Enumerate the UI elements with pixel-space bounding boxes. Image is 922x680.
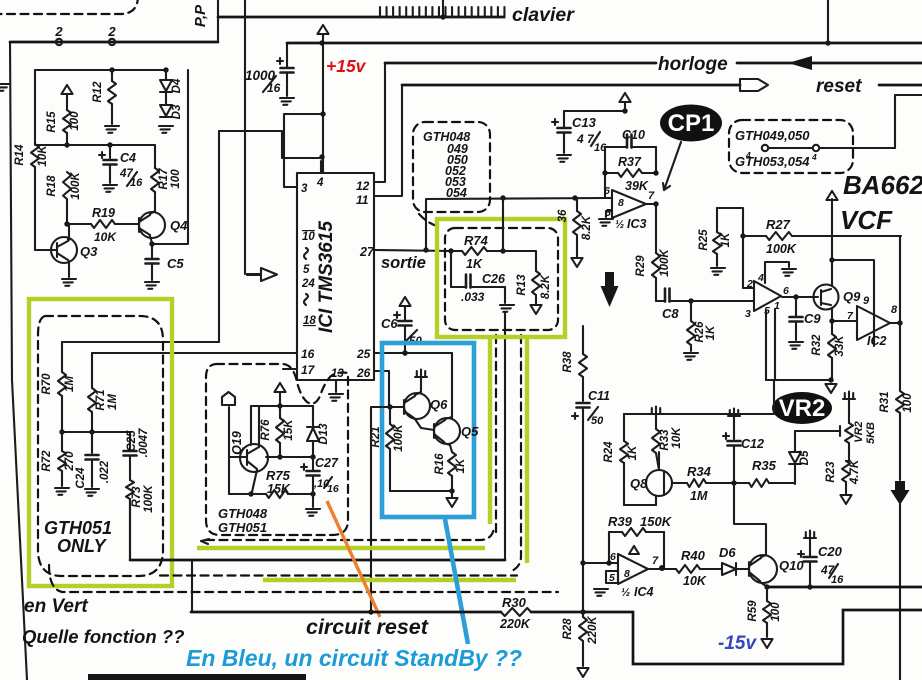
svg-text:10K: 10K: [671, 427, 683, 449]
wire R73 to y560 bus: [129, 499, 131, 559]
resistor R29: [655, 204, 657, 253]
svg-text:R71: R71: [95, 389, 107, 410]
svg-text:7: 7: [648, 190, 655, 202]
svg-text:6: 6: [783, 285, 789, 297]
resistor R31: [899, 323, 901, 391]
svg-text:8.2K: 8.2K: [581, 215, 593, 240]
wire R74 right riser: [502, 199, 504, 251]
svg-text:ICI TMS3615: ICI TMS3615: [316, 221, 337, 333]
wire reset bottom line: [191, 611, 501, 614]
resistor R28: [582, 612, 584, 617]
svg-text:6: 6: [604, 185, 610, 197]
svg-text:Q4: Q4: [170, 218, 188, 233]
op-amp IC4: [618, 554, 648, 584]
svg-text:Q3: Q3: [80, 244, 98, 259]
svg-text:33K: 33K: [834, 335, 846, 357]
diode D6: [722, 563, 736, 575]
svg-text:-15v: -15v: [718, 633, 757, 654]
dashed vertical B: [509, 335, 521, 572]
svg-text:D5: D5: [799, 450, 811, 465]
svg-text:4: 4: [757, 272, 764, 284]
svg-text:39K: 39K: [625, 179, 649, 193]
svg-text:C20: C20: [818, 544, 843, 559]
svg-text:C24: C24: [75, 467, 87, 489]
op-amp IC2b: [857, 306, 890, 340]
svg-text:GTH051: GTH051: [44, 518, 112, 538]
IC2a pin4 loop ground: [765, 262, 789, 283]
svg-text:Q9: Q9: [843, 289, 861, 304]
resistor R73: [126, 480, 134, 499]
svg-text:R28: R28: [562, 618, 574, 640]
capacitor C6: [399, 297, 410, 306]
capacitor C26: [450, 251, 452, 287]
resistor R27: [743, 235, 766, 237]
green vertical B: [525, 337, 529, 563]
arrow R13 bottom: [530, 305, 541, 314]
ground left edge: [0, 84, 10, 91]
svg-text:100K: 100K: [70, 172, 82, 200]
diode D3: [165, 92, 167, 104]
svg-text:R37: R37: [618, 155, 642, 169]
svg-text:1M: 1M: [107, 394, 119, 410]
wire reset drop x371: [371, 407, 390, 612]
dashed box sortie filter: [445, 228, 558, 330]
supply arrow Q9 rail: [826, 191, 837, 200]
resistor R17: [154, 145, 156, 168]
transistor Q19: [240, 444, 268, 472]
dashed elbow to sortie box: [419, 214, 440, 227]
svg-text:12: 12: [356, 179, 370, 193]
wire pin16: [92, 352, 297, 354]
node contact 2 (left): [56, 39, 62, 45]
arrow tick GTH051 box: [40, 316, 47, 323]
svg-text:16: 16: [831, 574, 844, 586]
svg-text:R38: R38: [562, 351, 574, 373]
VR2 oval: [772, 392, 832, 424]
svg-text:D13: D13: [318, 423, 330, 445]
svg-text:054: 054: [446, 186, 467, 200]
svg-text:8: 8: [891, 304, 898, 316]
svg-text:8.2K: 8.2K: [540, 274, 552, 299]
resistor R35: [734, 482, 749, 484]
svg-text:10K: 10K: [37, 145, 49, 167]
capacitor C12: [733, 416, 735, 439]
resistor R72: [61, 432, 63, 451]
svg-text:R40: R40: [681, 548, 706, 563]
capacitor C24: [91, 432, 93, 453]
svg-text:R34: R34: [687, 464, 712, 479]
resistor R32: [831, 321, 833, 334]
resistor R26: [690, 301, 692, 321]
wire emitter line y587: [767, 586, 922, 589]
svg-text:R24: R24: [603, 441, 615, 463]
wire x505 riser from y560 bus: [504, 313, 506, 560]
svg-text:IC3: IC3: [627, 217, 647, 231]
svg-text:16: 16: [327, 483, 339, 495]
svg-text:R75: R75: [266, 468, 291, 483]
svg-text:D3: D3: [171, 104, 183, 119]
arrow R28 bottom: [577, 668, 588, 677]
ground up R33: [650, 407, 662, 415]
wire x35 branch: [34, 70, 36, 144]
svg-text:10K: 10K: [683, 574, 707, 588]
svg-text:50: 50: [591, 415, 604, 427]
wire x219 vertical: [218, 131, 220, 342]
wire Q8 emitter: [624, 504, 656, 506]
svg-text:R35: R35: [752, 458, 777, 473]
svg-text:R30: R30: [502, 595, 527, 610]
wire drop x828: [827, 0, 829, 43]
capacitor C10: [605, 146, 627, 148]
ground up Q6: [415, 370, 427, 378]
staircase bottom: [633, 610, 922, 664]
svg-text:.022: .022: [99, 460, 111, 483]
capacitor C11: [577, 403, 590, 408]
svg-text:27: 27: [359, 245, 375, 259]
wire P.P vertical: [217, 0, 219, 41]
svg-text:R25: R25: [698, 229, 710, 251]
wire IC4 pin6: [583, 562, 618, 564]
svg-text:3: 3: [301, 183, 308, 195]
svg-text:1K: 1K: [705, 325, 717, 340]
svg-text:IC2: IC2: [867, 334, 887, 348]
wire left border: [10, 42, 27, 680]
wire C8 to IC2a: [691, 300, 754, 302]
wire R25 top: [717, 208, 743, 236]
resistor R24: [623, 414, 625, 441]
transistor Q3: [51, 237, 77, 263]
green vertical A: [488, 337, 492, 524]
wire horloge line: [385, 62, 656, 65]
transistor Q5: [434, 418, 460, 444]
svg-text:15K: 15K: [267, 482, 291, 496]
supply arrow R15: [61, 85, 72, 94]
wire x192 drop to reset line: [191, 560, 193, 612]
resistor R33: [655, 414, 657, 429]
wire pin17 stub: [283, 368, 297, 370]
arrow into IC1 pins 5-24: [247, 268, 277, 281]
resistor R12: [111, 70, 113, 81]
wire bias to IC2b: [832, 260, 874, 346]
svg-text:1K: 1K: [720, 232, 732, 247]
svg-text:1K: 1K: [466, 257, 483, 271]
wire pin11 to reset: [374, 85, 402, 196]
dashed bottom y593: [49, 565, 558, 592]
wire Q19 collector rail: [266, 456, 313, 458]
resistor R13: [503, 251, 536, 271]
svg-text:D6: D6: [719, 545, 736, 560]
arrow horloge (solid left): [788, 56, 812, 70]
svg-text:15K: 15K: [283, 419, 295, 441]
svg-text:R29: R29: [635, 255, 647, 277]
svg-text:En Bleu, un circuit StandBy ??: En Bleu, un circuit StandBy ??: [186, 645, 522, 671]
svg-text:C12: C12: [741, 437, 764, 451]
svg-text:150K: 150K: [640, 514, 673, 529]
resistor R40: [676, 565, 700, 573]
wire pin4: [320, 161, 322, 173]
ground arrow standby: [451, 491, 453, 497]
blue annotation box: [382, 343, 474, 517]
wire pin26: [374, 371, 389, 406]
svg-text:reset: reset: [816, 76, 862, 97]
resistor R16: [450, 445, 452, 452]
GTH049 dashed box: [729, 120, 853, 173]
svg-text:GTH049,050: GTH049,050: [735, 128, 810, 143]
wire to top right corner: [895, 95, 922, 148]
keyboard bus comb: [218, 16, 503, 19]
svg-text:.033: .033: [461, 290, 485, 304]
transistor Q6: [404, 393, 430, 419]
resistor R75: [229, 493, 251, 495]
contact circles GTH049 box: [762, 145, 768, 151]
svg-text:1K: 1K: [627, 445, 639, 460]
GTH048 dashed list box: [413, 122, 490, 212]
svg-text:1M: 1M: [64, 376, 76, 392]
capacitor C5: [151, 244, 153, 258]
resistor R19: [67, 223, 91, 225]
svg-text:C8: C8: [662, 306, 679, 321]
ground up C12: [728, 409, 740, 417]
svg-text:220K: 220K: [499, 617, 531, 631]
svg-text:R13: R13: [516, 274, 528, 296]
arrow tick dashes start: [201, 539, 209, 544]
resistor R76: [279, 392, 281, 418]
svg-text:R23: R23: [825, 461, 837, 483]
node contact 2 (right): [109, 39, 115, 45]
arrow below R32 node: [825, 384, 836, 393]
scan bar bottom: [88, 674, 306, 680]
svg-text:Q19: Q19: [230, 431, 244, 455]
svg-text:10: 10: [302, 231, 315, 243]
svg-text:100K: 100K: [393, 424, 405, 452]
ground C26: [504, 287, 506, 303]
svg-text:R70: R70: [41, 373, 53, 395]
orange annotation line: [327, 501, 380, 617]
svg-text:Q10: Q10: [779, 558, 804, 573]
transistor Q10: [749, 555, 777, 583]
wire Q4 emitter riser: [152, 70, 188, 244]
svg-text:P,P: P,P: [192, 4, 209, 27]
svg-text:C27: C27: [315, 456, 339, 470]
wire +15v rail: [322, 34, 324, 173]
wire IC2b out rail: [890, 322, 900, 324]
svg-text:en Vert: en Vert: [24, 596, 88, 617]
dashed box GTH051: [38, 316, 163, 576]
svg-text:+15v: +15v: [326, 56, 367, 76]
svg-text:8: 8: [624, 568, 630, 580]
resistor R21: [389, 407, 391, 424]
svg-text:16: 16: [301, 347, 315, 361]
resistor R18: [63, 172, 71, 199]
fat arrow down (right): [891, 481, 910, 505]
capacitor C13: [564, 110, 625, 112]
svg-text:25: 25: [356, 347, 371, 361]
svg-text:C4: C4: [120, 151, 136, 165]
svg-text:VR2: VR2: [779, 395, 826, 422]
+15v supply arrow: [317, 25, 328, 34]
wire Q9 drain rail: [831, 199, 833, 286]
svg-text:R18: R18: [46, 175, 58, 197]
wire pin3 loop: [284, 114, 323, 187]
arrow reset (open right): [740, 79, 768, 91]
svg-text:1M: 1M: [690, 489, 708, 503]
svg-text:CP1: CP1: [668, 110, 715, 137]
diode D5: [794, 431, 796, 451]
arrow R59 bottom: [761, 639, 772, 648]
resistor R25: [716, 208, 718, 232]
svg-text:100: 100: [902, 393, 914, 413]
diode D13: [312, 406, 314, 426]
svg-text:R32: R32: [811, 334, 823, 356]
svg-text:R73: R73: [131, 486, 143, 508]
resistor R37: [604, 147, 606, 173]
wire Q19 top rail: [251, 405, 313, 407]
capacitor C9: [795, 297, 797, 316]
wire pin25 into box: [451, 353, 453, 419]
resistor R15: [66, 94, 68, 110]
green annotation box 1: [29, 299, 172, 586]
svg-text:R19: R19: [92, 206, 115, 220]
svg-text:C9: C9: [804, 311, 821, 326]
svg-text:clavier: clavier: [512, 4, 575, 26]
svg-text:C26: C26: [482, 272, 506, 286]
wire bottom of standby: [390, 490, 452, 492]
resistor R71: [91, 353, 93, 388]
svg-text:.0047: .0047: [138, 428, 150, 457]
fat arrow down (left): [601, 272, 619, 307]
supply arrow C13 rail: [619, 93, 630, 102]
potentiometer VR2: [843, 392, 855, 400]
svg-text:R12: R12: [92, 81, 104, 103]
svg-text:18: 18: [303, 315, 316, 327]
capacitor C27: [312, 457, 314, 470]
svg-text:R31: R31: [879, 391, 891, 412]
svg-text:Q6: Q6: [430, 397, 448, 412]
svg-text:BA662: BA662: [843, 170, 922, 200]
dashed box top-left corner: [0, 0, 138, 14]
op-amp IC3: [612, 190, 646, 218]
wire clavier drop: [442, 0, 444, 17]
wire pin13 ground: [335, 380, 337, 392]
svg-text:C13: C13: [572, 115, 597, 130]
wire pin12 to horloge: [374, 63, 385, 182]
svg-text:R17: R17: [158, 168, 170, 190]
svg-text:5: 5: [609, 572, 615, 584]
svg-text:100: 100: [69, 111, 81, 131]
svg-text:R76: R76: [260, 419, 272, 441]
op-amp IC2a: [754, 281, 781, 311]
svg-text:ONLY: ONLY: [57, 536, 108, 556]
diode D4: [165, 70, 167, 79]
wire Q9 source: [832, 308, 857, 321]
svg-text:C25: C25: [126, 430, 138, 452]
transistor Q9 (fet): [814, 285, 839, 310]
green underline y548: [197, 546, 485, 550]
svg-text:6: 6: [610, 551, 616, 563]
svg-text:Q5: Q5: [461, 424, 479, 439]
svg-text:4.7K: 4.7K: [849, 459, 861, 485]
svg-text:26: 26: [356, 366, 371, 380]
arrow R36 bottom: [571, 258, 582, 267]
resistor R59: [766, 587, 768, 601]
svg-text:100: 100: [770, 602, 782, 622]
svg-text:2: 2: [107, 24, 116, 39]
wire pin27 riser: [426, 198, 605, 250]
dashed box GTH048/GTH051 (Q19): [206, 364, 348, 535]
svg-text:GTH051: GTH051: [218, 520, 267, 535]
svg-text:½: ½: [615, 219, 624, 231]
svg-text:100K: 100K: [659, 249, 671, 277]
svg-text:100K: 100K: [766, 242, 797, 256]
svg-text:36: 36: [557, 209, 569, 222]
svg-text:7: 7: [652, 555, 659, 567]
resistor R38: [582, 326, 584, 354]
supply arrow R76: [274, 383, 285, 392]
dashed vertical A: [495, 335, 497, 534]
svg-text:R72: R72: [41, 450, 53, 472]
svg-text:220K: 220K: [587, 616, 599, 645]
svg-text:VCF: VCF: [840, 205, 893, 235]
capacitor C8: [656, 300, 665, 302]
resistor R70: [61, 342, 63, 372]
svg-text:½: ½: [621, 587, 630, 599]
wire x245 keyboard line: [244, 0, 246, 274]
IC1 TMS3615: [297, 173, 374, 380]
svg-text:GTH048: GTH048: [218, 506, 268, 521]
arrow R23 bottom: [840, 495, 851, 504]
svg-text:9: 9: [863, 295, 870, 307]
ground C27: [312, 494, 314, 507]
svg-text:R14: R14: [14, 144, 26, 166]
blue annotation line: [445, 519, 468, 644]
wire IC2a out: [782, 296, 814, 298]
svg-text:1K: 1K: [455, 458, 467, 473]
wire main rail y43: [287, 42, 922, 45]
wire reset line: [402, 84, 740, 87]
dashed bottom y538: [206, 528, 494, 540]
transistor Q8: [646, 470, 672, 496]
svg-text:D4: D4: [171, 78, 183, 93]
wire R25 to IC2a pin2: [742, 236, 744, 288]
svg-text:4: 4: [745, 150, 751, 160]
wire y145: [35, 144, 155, 146]
svg-text:R39: R39: [608, 514, 633, 529]
svg-text:5KB: 5KB: [865, 422, 877, 444]
wire y560 bus: [130, 559, 505, 562]
svg-text:IC4: IC4: [634, 585, 654, 599]
svg-text:VR2: VR2: [853, 421, 865, 442]
output contact IC4: [648, 568, 676, 570]
wire connector drop: [228, 407, 230, 494]
wire y432: [62, 431, 130, 433]
resistor R74: [451, 250, 462, 252]
svg-text:sortie: sortie: [381, 254, 426, 272]
svg-text:3: 3: [745, 308, 751, 320]
resistor R23: [846, 460, 849, 462]
svg-text:5: 5: [303, 264, 310, 276]
green annotation box 2: [437, 219, 565, 337]
transistor Q4: [139, 212, 165, 238]
wire y414 rail: [624, 380, 774, 414]
wire C12 node to Q10: [734, 483, 766, 555]
resistor R39: [609, 531, 622, 533]
wire IC2a feedback pair: [765, 311, 767, 380]
svg-text:24: 24: [301, 278, 315, 290]
svg-text:C5: C5: [167, 256, 184, 271]
CP1 arrow: [664, 142, 681, 190]
resistor R14: [31, 144, 39, 167]
svg-text:4: 4: [811, 152, 817, 162]
